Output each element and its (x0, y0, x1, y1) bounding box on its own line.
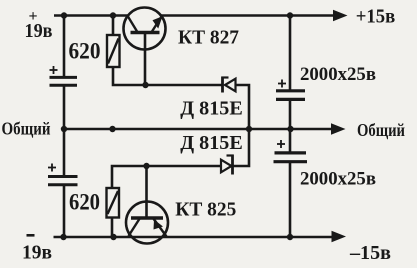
svg-text:2000х25в: 2000х25в (300, 64, 376, 85)
zener diode VD1 D815E top (222, 77, 236, 93)
wire left vertical mid (63, 85, 66, 176)
wire R2 top lead corner (112, 166, 146, 188)
wire Q1 base lead (144, 33, 147, 86)
node top-left junction (61, 12, 67, 18)
svg-text:19в: 19в (25, 20, 53, 42)
wire R2 bottom lead (111, 218, 114, 238)
zener diode VD2 D815E bottom (221, 155, 234, 175)
label -19v minus (27, 234, 35, 237)
svg-text:КТ 827: КТ 827 (178, 27, 239, 49)
node C3 top junction (287, 12, 293, 18)
node Q1 base junction (142, 82, 148, 88)
node bottom-left junction (60, 234, 66, 240)
wire Q2 base lead (145, 166, 148, 218)
arrow output +15v (333, 10, 348, 21)
svg-text:620: 620 (69, 39, 101, 64)
svg-text:19в: 19в (22, 241, 52, 263)
wire middle common rail (64, 128, 334, 131)
node C3 C4 common junction (287, 126, 293, 132)
wire right vertical lower (289, 162, 292, 237)
svg-text:Д 815Е: Д 815Е (180, 132, 243, 154)
svg-text:Д 815Е: Д 815Е (180, 98, 243, 120)
resistor R1 620 top (107, 35, 120, 67)
transistor Q1 KT827 (124, 8, 166, 50)
wire R1 top lead (112, 16, 115, 36)
svg-text:КТ 825: КТ 825 (175, 199, 236, 221)
wire R1 bottom lead (113, 67, 146, 85)
wire zener top to common corner (236, 85, 250, 129)
wire right vertical upper (289, 16, 292, 91)
node R2 bottom junction (110, 234, 116, 240)
capacitor C4 2000x25в bottom-right (274, 153, 308, 162)
wire top rail left (54, 14, 128, 17)
node common left junction (61, 126, 67, 132)
wire top rail right (162, 14, 337, 17)
wire right vertical mid (289, 99, 292, 152)
svg-text:Общий: Общий (2, 119, 51, 139)
svg-text:–15в: –15в (349, 242, 391, 264)
node R1 top junction (110, 12, 116, 18)
svg-text:2000х25в: 2000х25в (300, 168, 376, 189)
capacitor C1 top-left (50, 77, 78, 85)
arrow output common (331, 123, 346, 134)
wire base net top to zener (146, 84, 223, 87)
node zener common junction (246, 126, 252, 132)
arrow output -15v (332, 231, 347, 242)
wire zener bottom to common corner (233, 129, 250, 166)
transistor Q2 KT825 (126, 202, 168, 244)
capacitor C2 bottom-left (48, 177, 78, 185)
wire bottom rail (54, 236, 336, 239)
svg-text:Общий: Общий (357, 120, 405, 140)
node C4 bottom junction (287, 234, 293, 240)
wire left vertical lower (63, 185, 66, 237)
wire base net bottom to zener (146, 165, 221, 168)
svg-text:+15в: +15в (356, 7, 396, 28)
node common stray junction (109, 126, 115, 132)
wire left vertical upper (63, 16, 66, 78)
capacitor C3 2000x25в top-right (276, 91, 305, 100)
svg-text:620: 620 (69, 189, 100, 214)
node Q2 base junction (143, 163, 149, 169)
resistor R2 620 bottom (107, 188, 120, 218)
